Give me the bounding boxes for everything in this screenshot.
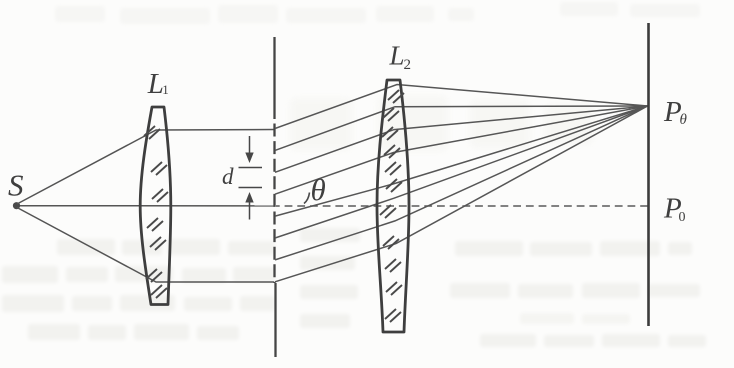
optical axis: dashed from grating to screen (node P0 line) — [276, 205, 648, 207]
screen plane — [647, 23, 650, 326]
svg-text:d: d — [222, 164, 234, 189]
diffracted ray 1: slit 1 through L2 to P_theta — [275, 85, 648, 129]
grating plane: solid bottom segment — [274, 283, 276, 357]
grating plane: solid top segment — [273, 37, 275, 119]
grating slits: dashed middle segment — [273, 124, 275, 284]
diffracted ray 3 — [275, 106, 648, 172]
diffracted ray 2 — [275, 106, 648, 150]
diffracted ray 4 — [275, 106, 648, 194]
lens L2 hatching — [380, 90, 404, 322]
faint print-through smudges (decorative texture) — [55, 2, 700, 24]
angle theta arc mark — [304, 193, 310, 204]
diffracted ray 5 (crosses axis at angle theta) — [275, 106, 648, 216]
d tick top — [239, 167, 263, 169]
diffracted ray 6 — [275, 106, 648, 238]
diffracted ray 7 — [275, 106, 648, 260]
lens L1 body — [140, 107, 171, 305]
source S point — [13, 202, 20, 209]
slit spacing d: down arrow — [239, 136, 263, 220]
optical axis: solid from S to grating — [19, 205, 274, 207]
svg-text:S: S — [8, 168, 24, 203]
ray: S to L1 top, then horizontal to grating — [17, 130, 274, 205]
lens L2 body — [377, 80, 409, 332]
lens L1 hatching — [144, 126, 168, 298]
up arrow — [245, 192, 253, 203]
d tick bottom — [239, 187, 263, 189]
svg-text:θ: θ — [311, 172, 326, 207]
ray: S to L1 bottom, then horizontal to grating — [17, 208, 274, 283]
diffracted ray 8: slit 8 through L2 to P_theta — [275, 106, 648, 282]
